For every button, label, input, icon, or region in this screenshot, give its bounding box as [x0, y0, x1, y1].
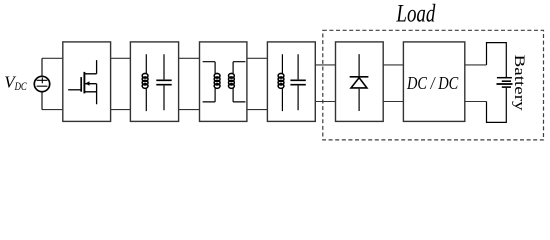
svg-text:Battery: Battery [511, 55, 528, 112]
svg-text:Load: Load [396, 1, 436, 28]
svg-text:DC / DC: DC / DC [406, 73, 458, 93]
svg-text:DC: DC [14, 81, 27, 93]
